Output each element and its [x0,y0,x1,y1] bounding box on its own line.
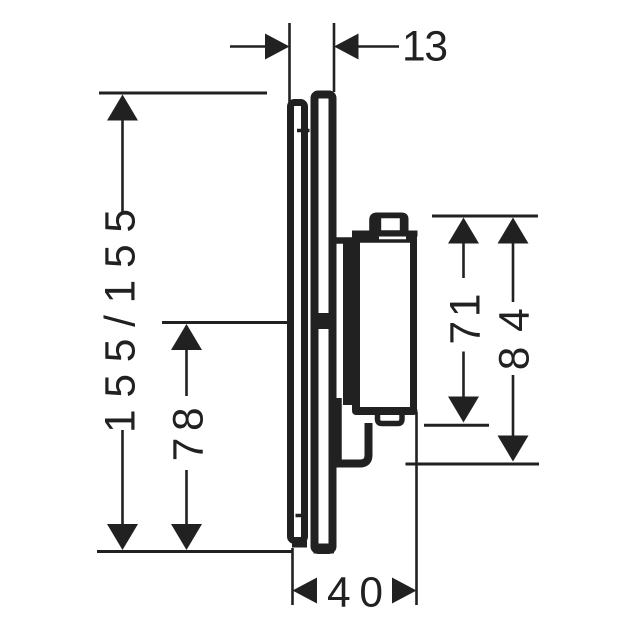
svg-text:13: 13 [402,24,448,71]
